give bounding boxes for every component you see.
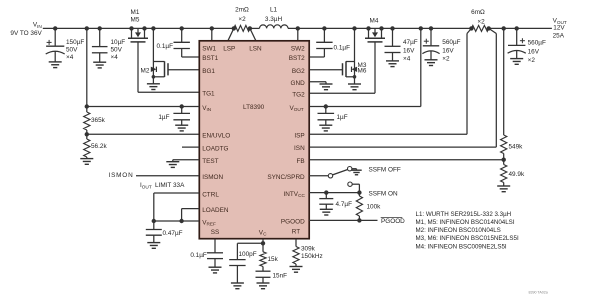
capacitor C9 1uF VIN pin (181, 107, 183, 114)
op-amp U1 LT8390 controller body (199, 41, 309, 239)
wire VOUT rail after 6mOhm sense (489, 27, 552, 29)
resistor R7 15k (260, 252, 266, 267)
capacitor C4 0.1uF BST2 (323, 28, 325, 42)
switch S2 SSFM ON (348, 182, 352, 186)
svg-text:M4: M4 (370, 18, 379, 25)
svg-text:RT: RT (292, 229, 300, 236)
transistor M1 M5 input switch (131, 28, 133, 38)
capacitor C3 0.1uF BST1 (181, 28, 183, 42)
node M2 drain junction (151, 26, 155, 30)
capacitor C7 1uF VOUT pin (324, 104, 328, 108)
svg-text:ISP: ISP (294, 132, 304, 139)
svg-text:0.47µF: 0.47µF (163, 230, 183, 237)
svg-text:BG2: BG2 (292, 68, 305, 75)
svg-text:CTRL: CTRL (202, 191, 219, 198)
svg-text:16V: 16V (403, 48, 415, 55)
wire VOUT pin riser (420, 28, 422, 106)
svg-text:50V: 50V (111, 47, 123, 54)
svg-text:47µF: 47µF (403, 39, 418, 46)
svg-text:M1: M1 (131, 9, 140, 16)
svg-text:SSFM ON: SSFM ON (369, 191, 398, 198)
svg-text:0.1µF: 0.1µF (334, 45, 351, 52)
svg-text:LOADTG: LOADTG (202, 145, 228, 152)
ground divider (86, 157, 88, 159)
wire SW2 node rail to 6mOhm sense (288, 27, 471, 29)
transistor M2 low side switch (152, 28, 154, 76)
wire ISP kelvin sense (467, 28, 471, 33)
capacitor C12 100pF (236, 243, 238, 259)
svg-text:56.2k: 56.2k (91, 143, 107, 150)
svg-text:LSN: LSN (249, 45, 262, 52)
svg-text:ISMON: ISMON (109, 172, 134, 179)
svg-text:PGOOD: PGOOD (381, 218, 405, 225)
wire SW1 sense to inductor L1 (250, 27, 260, 29)
ground GND pin (309, 81, 326, 83)
wire SW2 pin riser (297, 28, 299, 40)
wire LSN kelvin (250, 28, 256, 40)
svg-text:549k: 549k (509, 144, 524, 151)
wire LOADEN (182, 208, 200, 210)
svg-text:PGOOD: PGOOD (281, 219, 305, 226)
wire VREF (154, 220, 200, 222)
resistor R2 56.2k (84, 139, 90, 157)
svg-text:×2: ×2 (528, 57, 536, 64)
svg-text:1µF: 1µF (337, 114, 348, 121)
svg-text:16V: 16V (442, 48, 454, 55)
svg-text:BG1: BG1 (202, 68, 215, 75)
inductor L1 3.3uH (260, 25, 289, 29)
svg-text:GND: GND (290, 80, 305, 87)
svg-text:3.3µH: 3.3µH (265, 16, 283, 23)
node M3 drain junction (352, 26, 356, 30)
resistor R3 2mOhm sense (234, 25, 250, 31)
ground FB divider (503, 183, 505, 187)
svg-text:150µF: 150µF (66, 39, 84, 46)
svg-text:M2: M2 (141, 68, 150, 75)
svg-text:×4: ×4 (111, 54, 119, 61)
svg-text:SSFM OFF: SSFM OFF (369, 167, 401, 174)
svg-text:ISMON: ISMON (202, 174, 223, 181)
svg-text:LOADEN: LOADEN (202, 207, 229, 214)
svg-text:LIMIT 33A: LIMIT 33A (155, 182, 185, 189)
transistor M3 M6 low side switch (354, 28, 356, 76)
svg-text:15k: 15k (268, 256, 279, 263)
svg-text:TG1: TG1 (202, 91, 215, 98)
svg-text:FB: FB (297, 158, 305, 165)
svg-text:4.7µF: 4.7µF (336, 201, 353, 208)
resistor R4 6mOhm sense (471, 25, 488, 31)
wire EN divider riser from VIN rail (86, 28, 88, 112)
svg-text:BST1: BST1 (202, 55, 218, 62)
capacitor C6 560uF electrolytic (430, 28, 432, 45)
ground TEST pin (173, 159, 200, 161)
wire LOADTG stub (182, 146, 199, 148)
wire VC node (262, 239, 264, 252)
wire ISN kelvin sense (489, 28, 497, 33)
svg-text:M3, M6: INFINEON BSC015NE2LS5I: M3, M6: INFINEON BSC015NE2LS5I (416, 235, 519, 242)
svg-text:×2: ×2 (238, 16, 246, 23)
svg-text:25A: 25A (553, 33, 565, 40)
svg-text:0.1µF: 0.1µF (190, 252, 207, 259)
node FB junction (503, 154, 505, 165)
svg-text:LSP: LSP (223, 45, 235, 52)
resistor R6 49.9k (501, 165, 507, 183)
svg-text:309k: 309k (301, 246, 316, 253)
svg-text:SS: SS (211, 229, 220, 236)
capacitor C5 47uF output ceramic (392, 28, 394, 46)
wire FB divider riser (503, 28, 505, 135)
svg-text:100k: 100k (367, 204, 382, 211)
svg-text:100pF: 100pF (239, 251, 257, 258)
svg-text:10µF: 10µF (111, 39, 126, 46)
capacitor C10 0.47uF VREF (153, 221, 155, 230)
capacitor C13 15nF (262, 267, 264, 272)
svg-text:M5: M5 (131, 16, 140, 23)
svg-text:6mΩ: 6mΩ (471, 9, 485, 16)
svg-text:TEST: TEST (202, 158, 218, 165)
svg-text:L1: WURTH SER2915L-332 3.3µH: L1: WURTH SER2915L-332 3.3µH (416, 211, 512, 218)
svg-text:0.1µF: 0.1µF (157, 43, 174, 50)
resistor R1 365k (84, 112, 90, 130)
capacitor C8 560uF output electrolytic (516, 28, 518, 45)
switch S1 SSFM OFF (309, 175, 328, 177)
wire divider mid node (86, 130, 88, 139)
svg-text:SW2: SW2 (291, 45, 305, 52)
wire LSP kelvin (228, 28, 234, 40)
svg-text:12V: 12V (553, 25, 565, 32)
svg-text:TG2: TG2 (292, 91, 305, 98)
wire INTVCC (309, 192, 359, 194)
svg-text:M1, M5: INFINEON BSC014N04LSI: M1, M5: INFINEON BSC014N04LSI (416, 219, 515, 226)
svg-text:LT8390: LT8390 (243, 104, 265, 111)
capacitor C1 150uF input electrolytic (54, 28, 56, 46)
node EN/UVLO junction (85, 132, 89, 136)
svg-text:EN/UVLO: EN/UVLO (202, 133, 230, 140)
svg-text:×2: ×2 (442, 56, 450, 63)
svg-text:M4: INFINEON BSC009NE2LS5I: M4: INFINEON BSC009NE2LS5I (416, 243, 507, 250)
wire SW1 pin riser (211, 28, 213, 40)
svg-text:M2: INFINEON BSC010N04LS: M2: INFINEON BSC010N04LS (416, 227, 501, 234)
capacitor C2 10uF input ceramic (99, 28, 101, 46)
svg-text:2mΩ: 2mΩ (235, 7, 249, 14)
svg-text:49.9k: 49.9k (509, 171, 525, 178)
svg-text:L1: L1 (270, 7, 278, 14)
svg-text:BST2: BST2 (289, 55, 305, 62)
wire CTRL (154, 192, 200, 194)
svg-text:365k: 365k (91, 117, 106, 124)
svg-text:560µF: 560µF (442, 39, 460, 46)
svg-text:8390 TA02a: 8390 TA02a (529, 291, 548, 295)
wire TG2 gate drive (309, 92, 375, 94)
svg-text:9V TO 36V: 9V TO 36V (10, 30, 42, 37)
resistor R8 309k RT (295, 239, 297, 247)
wire VIN pin (87, 106, 200, 108)
wire EN/UVLO to IC (87, 133, 200, 135)
svg-text:SYNC/SPRD: SYNC/SPRD (267, 174, 305, 181)
svg-text:150kHz: 150kHz (301, 253, 323, 260)
svg-text:560µF: 560µF (528, 39, 546, 46)
svg-text:16V: 16V (528, 49, 540, 56)
transistor M4 output switch (368, 28, 370, 38)
svg-text:×2: ×2 (477, 18, 485, 25)
resistor R5 549k (501, 135, 507, 154)
svg-text:ISN: ISN (294, 145, 305, 152)
wire FB to IC (309, 159, 504, 161)
wire VIN rail to 2mOhm sense (43, 27, 234, 29)
svg-text:1µF: 1µF (158, 114, 169, 121)
svg-text:×4: ×4 (403, 56, 411, 63)
capacitor C14 4.7uF INTVCC (325, 193, 327, 199)
svg-text:SW1: SW1 (202, 45, 216, 52)
wire TG1 gate drive (138, 91, 199, 93)
svg-text:50V: 50V (66, 47, 78, 54)
svg-text:M6: M6 (358, 68, 367, 75)
svg-text:×4: ×4 (66, 54, 74, 61)
svg-text:15nF: 15nF (273, 273, 288, 280)
wire PGOOD (309, 219, 377, 221)
resistor R9 100k (358, 193, 360, 196)
capacitor C11 0.1uF SS (214, 239, 216, 253)
